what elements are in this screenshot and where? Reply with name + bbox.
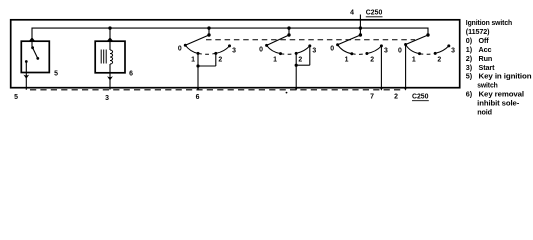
- svg-text:inhibit sole-: inhibit sole-: [477, 99, 520, 108]
- svg-text:2: 2: [218, 57, 222, 64]
- svg-text:2: 2: [298, 57, 302, 64]
- svg-text:3: 3: [105, 95, 109, 102]
- svg-text:5): 5): [466, 72, 473, 81]
- svg-text:6: 6: [129, 71, 133, 78]
- svg-text:0): 0): [466, 36, 473, 45]
- svg-text:noid: noid: [477, 108, 492, 117]
- svg-text:Ignition switch: Ignition switch: [466, 18, 512, 27]
- svg-text:1): 1): [466, 45, 473, 54]
- svg-text:C250: C250: [412, 94, 429, 101]
- svg-text:2: 2: [437, 57, 441, 64]
- svg-text:1: 1: [273, 57, 277, 64]
- svg-text:Start: Start: [479, 63, 496, 72]
- svg-text:7: 7: [370, 94, 374, 101]
- svg-text:1: 1: [191, 57, 195, 64]
- svg-text:6: 6: [196, 94, 200, 101]
- svg-text:0: 0: [330, 45, 334, 52]
- svg-text:3: 3: [232, 48, 236, 55]
- svg-text:1: 1: [345, 57, 349, 64]
- svg-text:0: 0: [178, 45, 182, 52]
- svg-text:2): 2): [466, 54, 473, 63]
- svg-text:5: 5: [54, 71, 58, 78]
- svg-text:3): 3): [466, 63, 473, 72]
- svg-text:6): 6): [466, 90, 473, 99]
- svg-text:Off: Off: [479, 36, 490, 45]
- svg-text:3: 3: [451, 48, 455, 55]
- svg-text:2: 2: [394, 94, 398, 101]
- svg-text:Key in ignition: Key in ignition: [479, 72, 532, 81]
- svg-text:0: 0: [259, 46, 263, 53]
- svg-text:0: 0: [398, 48, 402, 55]
- svg-text:C250: C250: [366, 10, 383, 17]
- svg-text:Run: Run: [479, 54, 493, 63]
- svg-text:3: 3: [312, 48, 316, 55]
- svg-text:1: 1: [412, 57, 416, 64]
- svg-text:4: 4: [350, 10, 354, 17]
- svg-text:5: 5: [14, 94, 18, 101]
- svg-text:switch: switch: [477, 81, 498, 90]
- svg-text:Acc: Acc: [479, 45, 492, 54]
- svg-text:2: 2: [370, 57, 374, 64]
- svg-text:Key removal: Key removal: [479, 90, 525, 99]
- svg-text:(11572): (11572): [466, 27, 490, 36]
- svg-text:3: 3: [384, 48, 388, 55]
